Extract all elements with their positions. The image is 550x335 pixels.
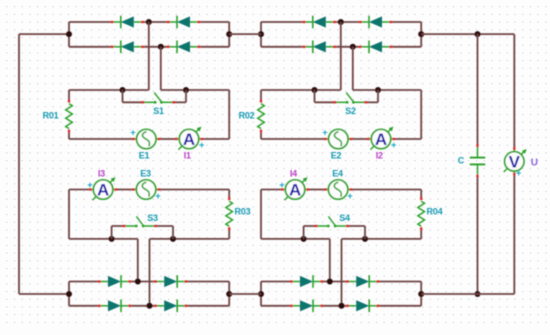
label R03 [235, 206, 251, 216]
wire cell4 left vertical [260, 190, 262, 239]
capacitor C [470, 144, 485, 178]
voltage source E4 [324, 180, 353, 199]
label I3 [98, 169, 105, 179]
wire bridge3 top rail [69, 281, 229, 283]
label E4 [332, 169, 343, 179]
svg-text:I3: I3 [98, 169, 105, 179]
svg-text:+: + [199, 140, 204, 150]
svg-text:I2: I2 [376, 150, 383, 160]
diode D15 [290, 300, 324, 313]
svg-text:R04: R04 [427, 206, 443, 216]
svg-text:S4: S4 [339, 213, 350, 223]
wire R03 branch top [228, 190, 230, 198]
wire cell4 node line right [342, 238, 422, 240]
wire cell3 node line left [69, 238, 138, 240]
wire top-right feed [421, 33, 514, 35]
bridge4 right vertical wire [420, 282, 422, 306]
plus sign U [516, 168, 521, 178]
svg-text:A: A [289, 181, 301, 200]
svg-text:R01: R01 [43, 111, 59, 121]
diode D4 [167, 41, 201, 54]
junction dot S4 right [362, 236, 368, 242]
wire R04 branch top [420, 190, 422, 198]
plus sign E1 [130, 128, 135, 138]
svg-text:+: + [347, 191, 352, 201]
voltmeter U [504, 147, 527, 176]
wire R01 branch bottom [68, 133, 70, 139]
svg-text:E4: E4 [332, 169, 343, 179]
wire capacitor branch bottom [477, 178, 479, 294]
label S4 [339, 213, 350, 223]
svg-text:+: + [391, 140, 396, 150]
wire bottom-right feed [421, 293, 514, 295]
wire R03 branch bottom [228, 230, 230, 239]
diode D9 [98, 275, 132, 288]
wire bridge1 tap B down [160, 47, 162, 90]
bridge1 left vertical wire [68, 22, 70, 47]
wire voltmeter branch bottom [513, 176, 515, 294]
junction dot S1 right [183, 87, 189, 93]
wire bridge2 tap A down [340, 22, 342, 90]
node feed dot bridge4 left [258, 291, 264, 297]
label I4 [290, 169, 297, 179]
svg-text:+: + [279, 180, 284, 190]
resistor R01 [66, 99, 73, 132]
wire cell3 tap A down [137, 239, 139, 282]
svg-text:S3: S3 [147, 213, 158, 223]
svg-text:+: + [516, 168, 521, 178]
label U [531, 157, 538, 168]
wire left border vertical [18, 34, 20, 294]
wire cell2 bottom row [261, 138, 421, 140]
resistor R02 [258, 99, 265, 132]
label R01 [43, 111, 59, 121]
plus sign I3 [87, 180, 92, 190]
diode D1 [110, 16, 144, 29]
wire cell1 node line left [69, 89, 149, 91]
junction dot capacitor bottom node [475, 291, 481, 297]
wire bridge3-bridge4 link [229, 293, 261, 295]
junction dot S3 left [109, 236, 115, 242]
plus sign I4 [279, 180, 284, 190]
resistor R03 [226, 197, 233, 230]
node feed dot bridge1 right [226, 31, 232, 37]
plus sign E4 [347, 191, 352, 201]
wire bridge3 bottom rail [69, 305, 229, 307]
junction dot bridge4 top rail [327, 279, 333, 285]
svg-text:S1: S1 [153, 106, 164, 116]
wire capacitor branch top [477, 34, 479, 144]
plus sign I2 [391, 140, 396, 150]
plus sign E3 [155, 191, 160, 201]
junction dot bridge1 top rail [146, 19, 152, 25]
diode D16 [346, 300, 380, 313]
bridge2 left vertical wire [260, 22, 262, 47]
label C [458, 156, 465, 166]
bridge2 right vertical wire [420, 22, 422, 47]
node feed dot bridge3 left [66, 291, 72, 297]
diode D14 [346, 275, 380, 288]
voltage source E1 [132, 129, 161, 148]
wire bridge2 tap B down [352, 47, 354, 90]
wire bridge1 top rail [69, 21, 229, 23]
svg-text:A: A [97, 181, 109, 200]
wire cell2 right vertical [420, 90, 422, 139]
wire cell4 top row [261, 189, 421, 191]
wire bridge1 bottom rail [69, 46, 229, 48]
label E1 [139, 150, 150, 160]
svg-text:A: A [183, 130, 195, 149]
label I1 [184, 150, 191, 160]
plus sign I1 [199, 140, 204, 150]
junction dot bridge4 bottom rail [339, 303, 345, 309]
svg-text:U: U [531, 157, 538, 168]
svg-text:S2: S2 [345, 106, 356, 116]
wire bridge4 top rail [261, 281, 421, 283]
svg-text:I4: I4 [290, 169, 297, 179]
ammeter I1 [175, 127, 204, 150]
diode D8 [359, 41, 393, 54]
switch S3 [112, 216, 173, 239]
label S1 [153, 106, 164, 116]
wire cell1 bottom row [69, 138, 229, 140]
junction dot bridge1 bottom rail [158, 44, 164, 50]
wire top-left feed [19, 33, 69, 35]
junction dot capacitor top node [475, 31, 481, 37]
junction dot S3 right [170, 236, 176, 242]
wire bridge1 tap A down [148, 22, 150, 90]
junction dot S1 left [120, 87, 126, 93]
label R02 [239, 111, 255, 121]
wire R02 branch bottom [260, 133, 262, 139]
diode D13 [290, 275, 324, 288]
svg-text:E3: E3 [140, 169, 151, 179]
bridge3 left vertical wire [68, 282, 70, 306]
wire bottom-left feed [19, 293, 69, 295]
wire cell1 node line right [161, 89, 229, 91]
wire cell3 top row [69, 189, 229, 191]
wire cell3 tap B down [149, 239, 151, 306]
wire cell4 tap B down [341, 239, 343, 306]
label E3 [140, 169, 151, 179]
label S2 [345, 106, 356, 116]
wire cell1 right vertical [228, 90, 230, 139]
svg-text:E2: E2 [331, 150, 342, 160]
wire voltmeter branch top [513, 34, 515, 147]
junction dot bridge2 top rail [338, 19, 344, 25]
wire R02 branch top [260, 90, 262, 99]
wire bridge2 bottom rail [261, 46, 421, 48]
svg-text:+: + [130, 128, 135, 138]
junction dot S2 left [312, 87, 318, 93]
diode D10 [154, 275, 188, 288]
diode D3 [110, 41, 144, 54]
wire R01 branch top [68, 90, 70, 99]
switch S2 [315, 90, 379, 104]
svg-text:C: C [458, 156, 465, 166]
svg-text:+: + [155, 191, 160, 201]
wire bridge1-bridge2 link [229, 33, 261, 35]
svg-text:+: + [87, 180, 92, 190]
wire bridge4 bottom rail [261, 305, 421, 307]
wire cell3 left vertical [68, 190, 70, 239]
label R04 [427, 206, 443, 216]
wire cell4 tap A down [329, 239, 331, 282]
svg-text:A: A [375, 130, 387, 149]
ammeter I2 [367, 127, 396, 150]
switch S1 [123, 90, 187, 104]
junction dot S2 right [375, 87, 381, 93]
diode D2 [167, 16, 201, 29]
wire bridge2 top rail [261, 21, 421, 23]
wire cell3 node line right [150, 238, 230, 240]
diode D5 [302, 16, 336, 29]
svg-text:R02: R02 [239, 111, 255, 121]
ammeter I4 [281, 177, 310, 200]
voltage source E2 [324, 129, 353, 148]
junction dot S4 left [301, 236, 307, 242]
svg-text:E1: E1 [139, 150, 150, 160]
node feed dot bridge2 left [258, 31, 264, 37]
junction dot bridge3 top rail [135, 279, 141, 285]
label E2 [331, 150, 342, 160]
wire cell4 node line left [261, 238, 330, 240]
junction dot bridge2 bottom rail [350, 44, 356, 50]
node feed dot bridge2 right [418, 31, 424, 37]
voltage source E3 [132, 180, 161, 199]
switch S4 [304, 216, 365, 239]
diode D11 [98, 300, 132, 313]
label I2 [376, 150, 383, 160]
wire cell2 node line left [261, 89, 341, 91]
wire R04 branch bottom [420, 230, 422, 239]
junction dot bridge3 bottom rail [147, 303, 153, 309]
ammeter I3 [89, 177, 118, 200]
wire cell2 node line right [353, 89, 421, 91]
node feed dot bridge4 right [418, 291, 424, 297]
bridge4 left vertical wire [260, 282, 262, 306]
label S3 [147, 213, 158, 223]
node feed dot bridge1 left [66, 31, 72, 37]
bridge3 right vertical wire [228, 282, 230, 306]
svg-text:I1: I1 [184, 150, 191, 160]
svg-text:R03: R03 [235, 206, 251, 216]
resistor R04 [418, 197, 425, 230]
bridge1 right vertical wire [228, 22, 230, 47]
diode D7 [302, 41, 336, 54]
node feed dot bridge3 right [226, 291, 232, 297]
diode D6 [359, 16, 393, 29]
plus sign E2 [322, 128, 327, 138]
svg-text:+: + [322, 128, 327, 138]
diode D12 [154, 300, 188, 313]
